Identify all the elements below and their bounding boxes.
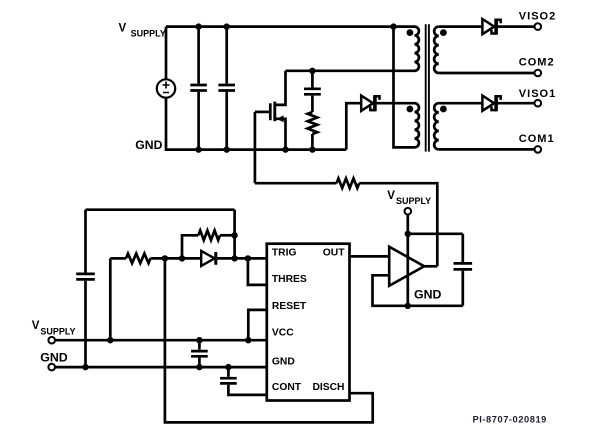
wire GND rail bottom <box>55 366 267 369</box>
svg-text:VISO2: VISO2 <box>519 10 556 22</box>
wire gate feedback horizontal <box>255 182 337 185</box>
wire GND rail up to bias diode <box>346 103 361 149</box>
diode D1 schottky bias <box>361 96 373 111</box>
polarity dot primary bottom <box>407 106 414 113</box>
wire VCC supply rail <box>55 339 267 342</box>
terminal COM2 <box>535 70 542 77</box>
svg-text:VSUPPLY: VSUPPLY <box>32 320 76 336</box>
wire D2 to VISO2 terminal <box>494 25 535 28</box>
op-amp U1 555 timer box <box>267 244 350 401</box>
wire buffer feedback <box>373 275 463 306</box>
capacitor C4 left <box>76 274 95 280</box>
svg-text:VSUPPLY: VSUPPLY <box>119 22 166 38</box>
svg-text:GND: GND <box>414 288 441 302</box>
wire drain rail to transformer <box>286 69 415 72</box>
wire COM2 <box>439 72 535 75</box>
junction parallel branch left <box>179 255 185 261</box>
transformer T1 secondary top winding <box>434 27 439 73</box>
transformer T1 primary top winding <box>415 27 419 71</box>
wire supply vertical to source <box>165 27 168 80</box>
wire DISCH loop <box>165 258 373 422</box>
wire main TRIG rail <box>151 257 267 260</box>
wire D3 to VISO1 terminal <box>494 102 535 105</box>
terminal GND left <box>48 364 55 371</box>
terminal VISO1 <box>535 100 542 107</box>
diode D2 schottky VISO2 <box>482 19 494 34</box>
resistor R1 snubber <box>308 112 318 134</box>
voltage source BT1 <box>157 79 175 97</box>
junction C5 top <box>196 337 202 343</box>
svg-text:VSUPPLY: VSUPPLY <box>387 190 431 206</box>
capacitor C7 output <box>461 234 464 262</box>
wire supply down to bottom primary return <box>394 27 415 148</box>
wire R3 left lead down to supply rail <box>109 258 112 340</box>
junction R3 riser at supply rail <box>107 337 113 343</box>
junction supply rail at 393 <box>390 23 396 29</box>
wire bias diode to winding <box>373 102 415 105</box>
terminal COM1 <box>535 146 542 153</box>
capacitor C5 VCC bypass <box>198 340 201 350</box>
svg-text:GND: GND <box>272 356 295 367</box>
transistor Q1 MOSFET <box>255 111 270 114</box>
resistor R2 gate feedback <box>337 178 360 188</box>
junction buffer GND at bottom rail <box>405 303 411 309</box>
wire supply to C7 <box>408 232 463 235</box>
terminal VSUPPLY left <box>48 337 55 344</box>
wire source to GND rail <box>166 98 346 150</box>
junction C1 bottom <box>195 146 201 152</box>
junction C2 top <box>224 23 230 29</box>
wire buffer output <box>424 265 437 268</box>
svg-text:OUT: OUT <box>323 248 345 259</box>
junction R4 right at vertical <box>231 232 237 238</box>
svg-text:RESET: RESET <box>272 301 307 312</box>
junction C2 bottom <box>224 146 230 152</box>
junction C5 bottom <box>196 364 202 370</box>
junction THRES drop <box>245 255 251 261</box>
capacitor C6 CONT <box>227 367 230 377</box>
wire parallel branch left riser <box>182 235 198 258</box>
svg-text:VCC: VCC <box>272 328 294 339</box>
transformer T1 primary bottom winding <box>415 103 419 147</box>
junction C4 bottom at GND rail <box>82 364 88 370</box>
junction buffer supply <box>405 231 411 237</box>
junction RESET riser <box>245 337 251 343</box>
junction snubber top <box>309 68 315 74</box>
svg-text:GND: GND <box>40 351 68 365</box>
wire timing top rail <box>86 208 235 211</box>
polarity dot secondary top <box>440 29 447 36</box>
op-amp U2 buffer <box>389 247 424 286</box>
svg-text:COM2: COM2 <box>519 56 555 68</box>
capacitor C1 <box>197 27 200 84</box>
terminal VSUPPLY buffer <box>405 208 412 215</box>
polarity dot secondary bottom <box>440 106 447 113</box>
transformer T1 core <box>426 24 429 151</box>
terminal VISO2 <box>535 23 542 30</box>
wire buffer power vertical <box>406 214 409 305</box>
wire RESET link <box>248 310 266 340</box>
svg-text:COM1: COM1 <box>519 133 555 145</box>
wire MOSFET gate down <box>254 112 257 183</box>
wire left branch upper <box>84 210 87 273</box>
junction C1 top <box>195 23 201 29</box>
diode D4 <box>201 251 214 266</box>
junction vertical at TRIG rail <box>231 255 237 261</box>
svg-text:TRIG: TRIG <box>272 248 297 259</box>
polarity dot primary top <box>407 29 414 36</box>
junction DISCH riser <box>162 255 168 261</box>
junction snubber bottom <box>309 146 315 152</box>
wire OUT to buffer <box>350 255 390 258</box>
wire secondary bottom to D3 <box>439 102 482 105</box>
svg-text:PI-8707-020819: PI-8707-020819 <box>473 415 547 425</box>
svg-text:DISCH: DISCH <box>312 382 344 393</box>
diode D3 schottky VISO1 <box>482 96 494 111</box>
resistor R3 <box>110 257 126 260</box>
wire R2 to buffer output <box>359 183 437 266</box>
wire top rail down to TRIG rail <box>233 210 236 259</box>
junction C6 top <box>225 364 231 370</box>
svg-text:CONT: CONT <box>272 382 302 393</box>
junction MOSFET source at GND rail <box>282 146 288 152</box>
wire THRES link <box>248 258 267 285</box>
capacitor C3 snubber <box>311 71 314 88</box>
wire COM1 <box>439 148 535 151</box>
transformer T1 secondary bottom winding <box>434 103 439 149</box>
svg-text:VISO1: VISO1 <box>519 88 556 100</box>
capacitor C2 <box>225 27 228 84</box>
svg-text:THRES: THRES <box>272 274 307 285</box>
resistor R4 parallel <box>198 231 220 241</box>
svg-text:GND: GND <box>135 138 162 152</box>
wire secondary top to D2 <box>439 25 482 28</box>
wire top supply rail <box>166 25 415 28</box>
